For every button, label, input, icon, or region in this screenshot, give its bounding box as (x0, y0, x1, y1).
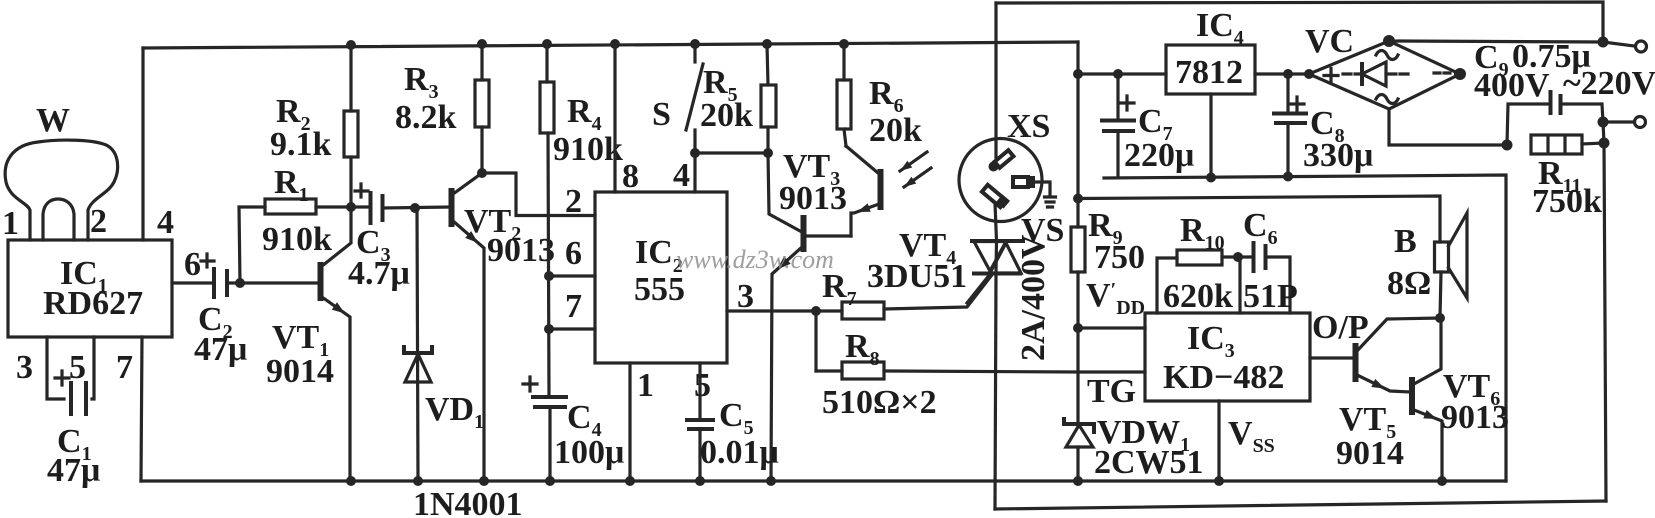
svg-text:910k: 910k (262, 221, 332, 258)
wire: VT2 collector to 555 pin2 (482, 173, 595, 216)
svg-text:TG: TG (1087, 373, 1136, 410)
wire: 7812 output line (1078, 72, 1166, 75)
wire: +12V top rail (143, 42, 1078, 48)
node: VD1 on rail (413, 476, 423, 486)
svg-text:XS: XS (1007, 108, 1050, 145)
wire: to pin6 (549, 274, 595, 277)
svg-text:9013: 9013 (487, 232, 555, 269)
chip IC3 KD-482 (1145, 313, 1310, 486)
wire: mains loop bottom edge (995, 501, 1606, 509)
svg-text:2CW51: 2CW51 (1094, 444, 1204, 481)
node: pin3 / R7 / R8 (811, 306, 821, 316)
svg-text:750k: 750k (1532, 183, 1602, 220)
node: VT3 emitter on rail (766, 476, 776, 486)
bridge rectifier VC (1304, 23, 1466, 109)
capacitor C1 47u (47, 371, 100, 489)
svg-text:W: W (36, 102, 70, 139)
node: R4 to 555 pin6 (544, 271, 554, 281)
svg-text:400V: 400V (1474, 67, 1550, 104)
diode VD1 1N4001 (404, 208, 523, 518)
wire: 555 pin4 lead (693, 153, 696, 192)
svg-text:S: S (652, 96, 671, 133)
svg-text:5: 5 (69, 349, 86, 386)
capacitor C7 220u (1102, 74, 1194, 177)
wire: 555 pin1 to rail (628, 363, 631, 481)
svg-text:2: 2 (90, 203, 107, 240)
zener VDW1 2CW51 (1064, 414, 1204, 481)
wire: triac down to box bottom (995, 274, 996, 510)
terminal: ~220V line 2 (1603, 120, 1634, 123)
resistor R3 8.2k (395, 39, 489, 173)
wire: IC1 pin4 to top rail (141, 48, 144, 240)
capacitor C6 51P (1238, 207, 1298, 315)
svg-text:555: 555 (634, 271, 685, 308)
svg-text:330μ: 330μ (1303, 137, 1373, 174)
svg-text:4: 4 (673, 157, 690, 194)
svg-text:100μ: 100μ (554, 434, 624, 471)
resistor R1 910k (262, 164, 332, 258)
wire: VDD to IC3 (1078, 326, 1145, 329)
svg-text:8.2k: 8.2k (395, 99, 457, 136)
socket XS (959, 108, 1056, 222)
wire: 12V rail jog down (1076, 42, 1079, 74)
node: VT2 emitter on rail (479, 476, 489, 486)
node: 7812 out (1073, 69, 1083, 79)
node: C8 top (1283, 69, 1293, 79)
node: C7 top (1113, 69, 1123, 79)
svg-text:5: 5 (694, 367, 711, 404)
wire: C2 to VT1 base (227, 281, 318, 284)
capacitor C9 0.75u 400V (1474, 38, 1603, 145)
svg-text:9013: 9013 (1441, 399, 1509, 436)
resistor R6 20k (837, 39, 922, 149)
svg-text:7812: 7812 (1175, 54, 1243, 91)
wire: 12V audio feed to speaker (1078, 196, 1440, 242)
svg-text:20k: 20k (700, 97, 753, 134)
svg-text:7: 7 (116, 349, 133, 386)
node: VT6 emitter on rail (1437, 476, 1447, 486)
wire: to pin7 (549, 327, 595, 330)
node: C5 on rail (695, 476, 705, 486)
svg-text:~220V: ~220V (1563, 65, 1655, 102)
resistor R10 620k (1157, 212, 1243, 315)
svg-text:9014: 9014 (266, 353, 334, 390)
svg-text:0.01μ: 0.01μ (700, 434, 779, 471)
wire: bridge bottom to C9/R11 (1389, 109, 1507, 145)
capacitor C2 47u (194, 254, 247, 368)
wire: 555 pin3 output (727, 309, 816, 312)
wire: PSU ground line (1104, 175, 1506, 481)
wire: IC3 O/P output (1310, 356, 1353, 359)
node: C3/VD1/VT2 base (410, 203, 420, 213)
svg-text:4: 4 (157, 204, 174, 241)
node: VDD (1073, 323, 1083, 333)
node: terminal 2 junction (1598, 117, 1609, 128)
wire: 555 pin8 to rail (613, 44, 616, 192)
wire: 7812 input line (1255, 72, 1309, 75)
transistor VT6 9013 (1412, 318, 1509, 481)
svg-text:1: 1 (2, 205, 19, 242)
wire: bridge top to mains terminal (1389, 41, 1603, 42)
wire: R1 left leg (239, 207, 265, 283)
svg-text:47μ: 47μ (194, 331, 247, 368)
terminal: ~220V line 1 (1603, 42, 1634, 46)
regulator IC4 7812 (1166, 7, 1255, 183)
wire: pin3 to C1 (47, 337, 64, 399)
node: VT1 emitter on rail (346, 476, 356, 486)
node: R4 to 555 pin7 (544, 324, 554, 334)
node: terminal 1 (1598, 37, 1609, 48)
svg-text:910k: 910k (553, 131, 623, 168)
wire: mains right edge (1604, 143, 1606, 501)
microphone W (5, 102, 117, 240)
svg-text:www.dz3w.com: www.dz3w.com (676, 245, 834, 274)
wire: pin5 to C1 (92, 337, 94, 399)
IC1 RD627 (2, 203, 174, 386)
svg-text:51P: 51P (1243, 278, 1298, 315)
svg-text:2: 2 (565, 183, 582, 220)
node: S / pin4 junction (690, 148, 700, 158)
resistor R8 510 (816, 311, 1078, 421)
op IC2 555 timer (565, 157, 754, 404)
resistor R11 750k (1531, 122, 1610, 220)
node: R5 bottom junction (763, 148, 773, 158)
transistor VT1 9014 (266, 207, 351, 481)
svg-text:O/P: O/P (1312, 309, 1369, 346)
svg-text:510Ω×2: 510Ω×2 (822, 384, 937, 421)
svg-text:6: 6 (184, 246, 201, 283)
svg-text:20k: 20k (869, 112, 922, 149)
wire: XS bottom to triac (995, 203, 997, 241)
wire: mains loop top edge (996, 2, 1603, 42)
svg-text:9014: 9014 (1336, 435, 1404, 472)
svg-text:3DU51: 3DU51 (867, 258, 967, 295)
wire: R1 right to node (316, 205, 351, 208)
wire: mains left drop to XS (994, 3, 997, 168)
resistor R9 750 (1071, 74, 1145, 424)
capacitor C3 4.7u (348, 184, 449, 292)
node: VT2 collector / R3 (477, 168, 487, 178)
svg-text:620k: 620k (1163, 278, 1233, 315)
resistor R2 9.1k (270, 40, 358, 207)
svg-text:220μ: 220μ (1124, 137, 1194, 174)
transistor VT5 9014 (1336, 318, 1440, 472)
svg-text:VC: VC (1305, 23, 1354, 60)
svg-text:9.1k: 9.1k (270, 126, 332, 163)
capacitor C8 330u (1274, 74, 1373, 182)
triac VS 2A/400V (967, 212, 1064, 361)
capacitor C5 0.01u (687, 363, 779, 481)
switch S (652, 39, 703, 153)
svg-text:4.7μ: 4.7μ (348, 255, 410, 292)
svg-text:8: 8 (622, 158, 639, 195)
svg-text:KD−482: KD−482 (1163, 359, 1284, 396)
svg-text:8Ω: 8Ω (1387, 265, 1431, 302)
node: VDW1 on rail (1073, 476, 1083, 486)
node: collectors / speaker (1435, 313, 1445, 323)
svg-text:B: B (1394, 223, 1417, 260)
svg-text:3: 3 (16, 349, 33, 386)
transistor VT3 9013 (768, 148, 851, 481)
resistor R7 510 (816, 268, 991, 319)
wire: pin4 node to R5 (695, 151, 768, 154)
speaker B 8ohm (1387, 213, 1467, 318)
svg-text:7: 7 (565, 288, 582, 325)
svg-text:750: 750 (1094, 239, 1145, 276)
phototransistor VT4 3DU51 (846, 146, 967, 295)
resistor R4 910k (540, 39, 623, 397)
svg-text:9013: 9013 (779, 180, 847, 217)
wire: IC1 pin6 to C2 (172, 281, 212, 284)
svg-text:47μ: 47μ (47, 452, 100, 489)
node: C2/R1/VT1 base junction (235, 278, 245, 288)
transistor VT2 9013 (452, 173, 556, 481)
wire: ground bottom rail (141, 479, 1506, 482)
svg-text:6: 6 (565, 235, 582, 272)
svg-text:1: 1 (637, 367, 654, 404)
wire: TG to IC3 (1078, 370, 1145, 373)
node: R1/R2/C3/VT1 collector (346, 202, 356, 212)
wire: IC1 pin7 to bottom rail (141, 337, 142, 481)
node: C9/R11 left (1502, 140, 1513, 151)
node: C4 on rail (545, 476, 555, 486)
svg-text:2A/400V: 2A/400V (1015, 234, 1052, 361)
capacitor C4 100u (523, 377, 624, 481)
svg-text:RD627: RD627 (43, 285, 143, 322)
resistor R5 20k (700, 39, 776, 153)
svg-text:1N4001: 1N4001 (413, 486, 523, 518)
